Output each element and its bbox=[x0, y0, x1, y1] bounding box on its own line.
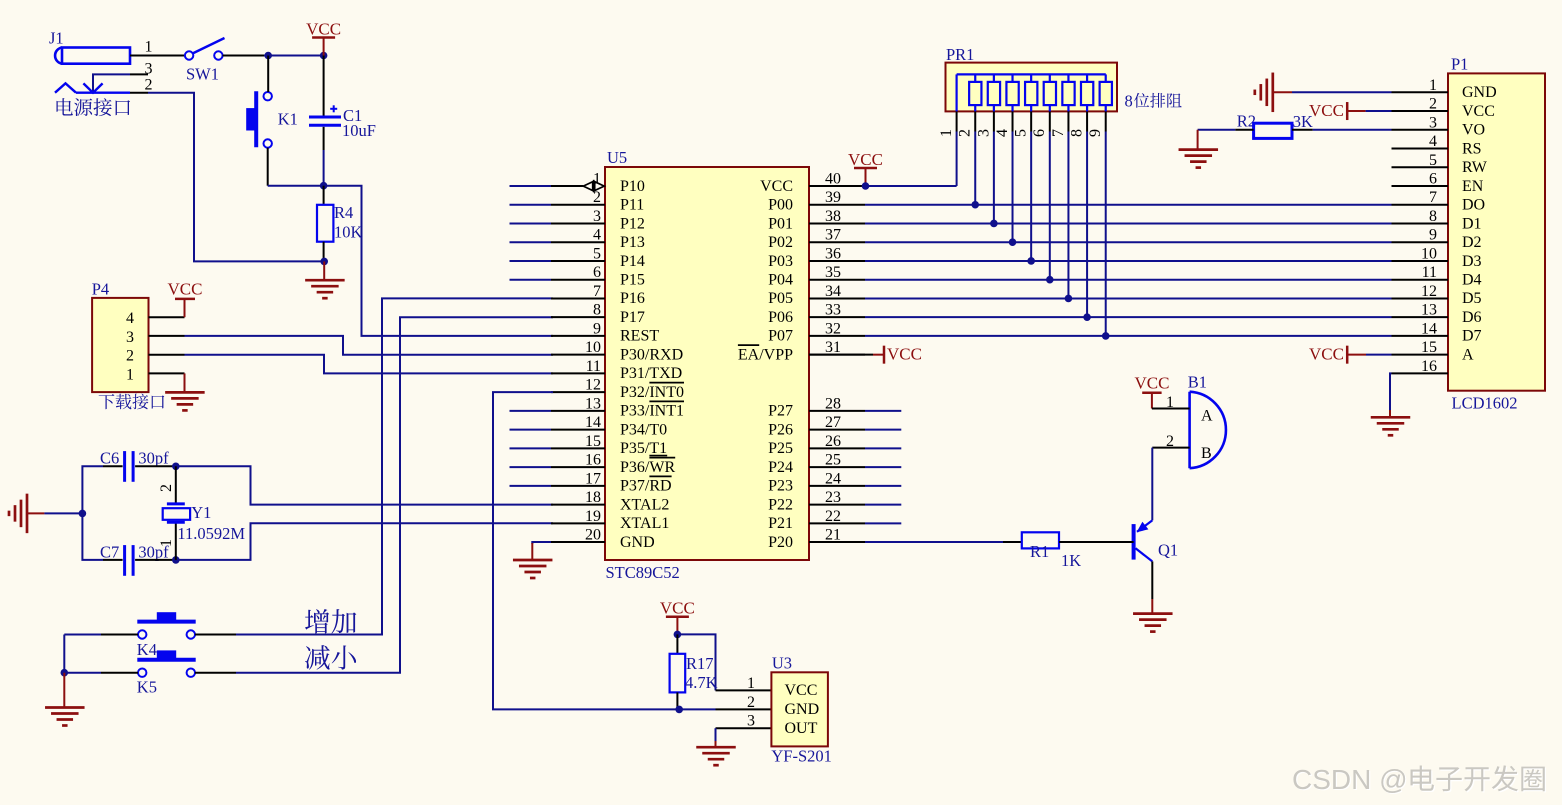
svg-text:D4: D4 bbox=[1462, 272, 1482, 289]
svg-text:P23: P23 bbox=[768, 478, 793, 495]
svg-text:VCC: VCC bbox=[660, 599, 695, 618]
wire C6 to Y1 node bbox=[135, 465, 176, 467]
U5 pin 37 P02 bbox=[809, 241, 865, 243]
wire stub U5 pin 16 bbox=[510, 466, 552, 468]
svg-text:P00: P00 bbox=[768, 197, 793, 214]
svg-text:31: 31 bbox=[825, 339, 841, 356]
svg-text:1: 1 bbox=[747, 675, 755, 692]
svg-text:3: 3 bbox=[975, 129, 992, 137]
svg-text:1: 1 bbox=[938, 129, 955, 137]
capacitor C7 30pf bbox=[123, 545, 126, 576]
PR1 pin 4 bbox=[1012, 111, 1014, 131]
svg-text:14: 14 bbox=[585, 414, 601, 431]
svg-text:Y1: Y1 bbox=[191, 503, 211, 522]
svg-text:P26: P26 bbox=[768, 421, 793, 438]
node P04 bbox=[1046, 276, 1054, 284]
resistor R17 4.7K bbox=[676, 634, 678, 653]
svg-text:37: 37 bbox=[825, 227, 841, 244]
U5 pin 39 P00 bbox=[809, 204, 865, 206]
svg-text:8: 8 bbox=[1429, 208, 1437, 225]
PR1 resistor element 3 bbox=[1011, 74, 1013, 82]
U5 pin 18 XTAL2 bbox=[551, 504, 605, 506]
svg-text:OUT: OUT bbox=[785, 720, 818, 737]
svg-text:5: 5 bbox=[1013, 129, 1030, 137]
wire K4 right to P16 net 增加 bbox=[195, 634, 236, 636]
ground at U5 GND pin 20 bbox=[532, 542, 551, 544]
power interface label 电源接口 bbox=[57, 98, 73, 115]
PR1 resistor element 6 bbox=[1067, 74, 1069, 82]
node R4/J1 ground bbox=[320, 258, 328, 266]
VCC symbol at EA/VPP pin 31 bbox=[809, 354, 873, 356]
svg-text:10: 10 bbox=[585, 339, 601, 356]
ground at U3 OUT bbox=[696, 746, 736, 749]
svg-text:P34/T0: P34/T0 bbox=[620, 421, 667, 438]
svg-text:P21: P21 bbox=[768, 515, 793, 532]
svg-text:15: 15 bbox=[1421, 339, 1437, 356]
wire PR1 pin 3 to P01 row bbox=[993, 132, 995, 224]
push button K1 bbox=[254, 91, 258, 147]
svg-text:28: 28 bbox=[825, 395, 841, 412]
wire PR1 pin 8 to P06 row bbox=[1086, 132, 1088, 318]
ground below R4 bbox=[323, 261, 325, 280]
VCC symbol top left bbox=[312, 36, 335, 39]
U5 pin 12 P32/INT0 bbox=[551, 391, 605, 393]
PR1 pin 9 bbox=[1105, 111, 1107, 131]
svg-text:VCC: VCC bbox=[848, 150, 883, 169]
svg-text:3: 3 bbox=[1429, 114, 1437, 131]
J1 pin 3 wire to sleeve bbox=[93, 74, 130, 92]
U5 pin 6 P15 bbox=[551, 279, 605, 281]
U5 pin 24 P23 bbox=[809, 485, 865, 487]
svg-text:P13: P13 bbox=[620, 234, 645, 251]
svg-text:1K: 1K bbox=[1061, 551, 1081, 570]
U5 pin 40 VCC bbox=[809, 185, 865, 187]
svg-text:1: 1 bbox=[158, 539, 175, 547]
svg-text:1: 1 bbox=[145, 39, 153, 56]
wire P06 to LCD D6 bbox=[865, 316, 1392, 318]
svg-text:SW1: SW1 bbox=[186, 65, 219, 84]
wire K1 bottom to node bbox=[267, 148, 269, 186]
svg-text:18: 18 bbox=[585, 489, 601, 506]
wire P4 pin2 to U5 TXD bbox=[185, 355, 554, 374]
node R17/U3 pin2 bbox=[675, 706, 683, 714]
node P01 bbox=[990, 220, 998, 228]
svg-text:32: 32 bbox=[825, 320, 841, 337]
wire stub U5 right row 19 bbox=[865, 522, 901, 524]
wire PR1 pin 6 to P04 row bbox=[1049, 132, 1051, 280]
P1 pin 4 bbox=[1392, 148, 1449, 150]
svg-text:K4: K4 bbox=[137, 640, 157, 659]
svg-text:8: 8 bbox=[1068, 129, 1085, 137]
svg-text:11: 11 bbox=[586, 358, 601, 375]
wire node to C6 bbox=[82, 466, 103, 513]
node C6/C7 ground bbox=[79, 510, 87, 518]
svg-text:35: 35 bbox=[825, 264, 841, 281]
wire R4 bottom to node bbox=[323, 242, 325, 262]
P1 pin 8 bbox=[1392, 222, 1449, 224]
U5 pin 34 P05 bbox=[809, 297, 865, 299]
svg-text:11.0592M: 11.0592M bbox=[177, 524, 245, 543]
svg-text:P30/RXD: P30/RXD bbox=[620, 346, 683, 363]
wire R1 to Q1 base bbox=[1059, 541, 1134, 543]
ground below Q1 bbox=[1133, 612, 1173, 615]
wire node to C7 bbox=[82, 513, 103, 560]
svg-text:3: 3 bbox=[747, 713, 755, 730]
svg-text:P04: P04 bbox=[768, 272, 793, 289]
svg-text:6: 6 bbox=[593, 264, 601, 281]
push button K4 bbox=[137, 620, 195, 624]
svg-text:P10: P10 bbox=[620, 178, 645, 195]
svg-text:27: 27 bbox=[825, 414, 841, 431]
U5 pin 4 P13 bbox=[551, 241, 605, 243]
ground below K4/K5 bbox=[63, 673, 65, 708]
svg-text:P12: P12 bbox=[620, 215, 645, 232]
wire node to XTAL2 bbox=[176, 466, 553, 504]
svg-text:R4: R4 bbox=[334, 203, 353, 222]
svg-text:P01: P01 bbox=[768, 215, 793, 232]
svg-text:XTAL2: XTAL2 bbox=[620, 496, 669, 513]
U5 pin 33 P06 bbox=[809, 316, 865, 318]
wire P02 to LCD D2 bbox=[865, 241, 1392, 243]
svg-text:P24: P24 bbox=[768, 459, 793, 476]
svg-text:2: 2 bbox=[126, 348, 134, 365]
svg-text:30pf: 30pf bbox=[138, 449, 169, 468]
PR1 resistor element 4 bbox=[1030, 74, 1032, 82]
U5 pin 9 REST bbox=[551, 335, 605, 337]
node K4/K5 ground bbox=[61, 669, 69, 677]
svg-text:XTAL1: XTAL1 bbox=[620, 515, 669, 532]
overline INT1 bbox=[649, 400, 684, 402]
overline EA bbox=[738, 344, 759, 346]
wire PR1 pin 9 to P07 row bbox=[1105, 132, 1107, 336]
node C1/R4/REST bbox=[320, 182, 328, 190]
svg-text:6: 6 bbox=[1031, 129, 1048, 137]
PR1 resistor element 8 bbox=[1105, 74, 1107, 82]
U5 pin 15 P35/T1 bbox=[551, 447, 605, 449]
underline T1 bbox=[649, 455, 667, 457]
VCC above R17 bbox=[666, 615, 689, 618]
PR1 pin 6 bbox=[1049, 111, 1051, 131]
svg-text:VCC: VCC bbox=[887, 345, 922, 364]
svg-text:13: 13 bbox=[585, 395, 601, 412]
svg-text:C7: C7 bbox=[100, 543, 119, 562]
svg-text:1: 1 bbox=[1429, 77, 1437, 94]
svg-text:EN: EN bbox=[1462, 178, 1484, 195]
wire stub U5 right row 15 bbox=[865, 447, 901, 449]
net label 减小 bbox=[305, 645, 330, 670]
svg-text:R17: R17 bbox=[686, 654, 714, 673]
wire PR1 pin 7 to P05 row bbox=[1067, 132, 1069, 299]
svg-text:P11: P11 bbox=[620, 197, 644, 214]
node P07 bbox=[1102, 332, 1110, 340]
wire P04 to LCD D4 bbox=[865, 279, 1392, 281]
crystal Y1 11.0592M bbox=[175, 466, 177, 504]
PR1 pin 8 bbox=[1086, 111, 1088, 131]
svg-text:RS: RS bbox=[1462, 140, 1482, 157]
svg-text:P37/RD: P37/RD bbox=[620, 478, 672, 495]
svg-text:REST: REST bbox=[620, 328, 659, 345]
ground below R2 bbox=[1179, 148, 1219, 151]
wire R2 right to P1 VO bbox=[1292, 129, 1313, 131]
svg-text:3K: 3K bbox=[1293, 112, 1313, 131]
svg-text:10: 10 bbox=[1421, 245, 1437, 262]
svg-text:D6: D6 bbox=[1462, 309, 1482, 326]
svg-text:Q1: Q1 bbox=[1158, 541, 1178, 560]
U5 pin 8 P17 bbox=[551, 316, 605, 318]
svg-text:4: 4 bbox=[593, 227, 601, 244]
svg-text:39: 39 bbox=[825, 189, 841, 206]
PR1 pin 7 bbox=[1067, 111, 1069, 131]
svg-text:VCC: VCC bbox=[760, 178, 793, 195]
svg-text:P22: P22 bbox=[768, 496, 793, 513]
svg-text:7: 7 bbox=[1050, 129, 1067, 137]
svg-text:34: 34 bbox=[825, 283, 841, 300]
capacitor C6 30pf bbox=[123, 451, 126, 482]
svg-text:40: 40 bbox=[825, 171, 841, 188]
U5 pin 27 P26 bbox=[809, 429, 865, 431]
svg-text:J1: J1 bbox=[49, 29, 64, 48]
wire P00 to LCD D0 bbox=[865, 204, 1392, 206]
U5 pin 19 XTAL1 bbox=[551, 522, 605, 524]
resistor R4 10K bbox=[323, 186, 325, 205]
U5 pin 21 P20 bbox=[809, 541, 865, 543]
svg-text:VCC: VCC bbox=[785, 682, 818, 699]
svg-text:GND: GND bbox=[620, 534, 655, 551]
svg-text:D7: D7 bbox=[1462, 328, 1482, 345]
U5 pin 35 P04 bbox=[809, 279, 865, 281]
svg-text:B: B bbox=[1201, 445, 1212, 462]
svg-text:21: 21 bbox=[825, 527, 841, 544]
wire stub U5 pin 15 bbox=[510, 447, 552, 449]
svg-text:26: 26 bbox=[825, 433, 841, 450]
wire B1 pin2 to Q1 collector bbox=[1151, 448, 1153, 521]
svg-text:K5: K5 bbox=[137, 678, 157, 697]
PR1 resistor element 2 bbox=[993, 74, 995, 82]
svg-text:CSDN @: CSDN @ bbox=[1292, 764, 1408, 795]
capacitor C1 10uF bbox=[323, 56, 325, 116]
wire K5 right to P17 net 减小 bbox=[195, 672, 236, 674]
svg-text:LCD1602: LCD1602 bbox=[1452, 394, 1518, 413]
U5 pin 38 P01 bbox=[809, 222, 865, 224]
svg-text:5: 5 bbox=[1429, 152, 1437, 169]
U5 pin 1 P10 bbox=[551, 185, 583, 187]
PR1 pin 5 bbox=[1030, 111, 1032, 131]
wire stub U5 pin 5 bbox=[510, 260, 552, 262]
node C6/Y1/XTAL2 bbox=[172, 463, 180, 471]
wire P4 pin3 to U5 RXD bbox=[185, 336, 554, 355]
wire stub U5 right row 14 bbox=[865, 429, 901, 431]
svg-text:D3: D3 bbox=[1462, 253, 1482, 270]
U5 pin 1 edge marker bbox=[583, 182, 604, 191]
ground at P1 pin 16 bbox=[1390, 373, 1392, 410]
svg-text:7: 7 bbox=[1429, 189, 1437, 206]
svg-text:VCC: VCC bbox=[1309, 101, 1344, 120]
svg-text:K1: K1 bbox=[278, 110, 298, 129]
wire stub U5 right row 17 bbox=[865, 485, 901, 487]
wire stub U5 pin 6 bbox=[510, 279, 552, 281]
J1 pin 3 pin bbox=[130, 73, 148, 75]
J1 pin 1 wire bbox=[130, 55, 186, 57]
P1 pin 2 bbox=[1392, 110, 1449, 112]
overline INT0 bbox=[649, 382, 684, 384]
svg-text:D1: D1 bbox=[1462, 215, 1482, 232]
svg-text:3: 3 bbox=[593, 208, 601, 225]
svg-text:2: 2 bbox=[1429, 96, 1437, 113]
svg-text:P06: P06 bbox=[768, 309, 793, 326]
P1 pin 16 bbox=[1392, 372, 1449, 374]
svg-text:10K: 10K bbox=[334, 223, 363, 242]
node P00 bbox=[971, 201, 979, 209]
wire R2 left to ground bbox=[1235, 129, 1253, 131]
node VCC pin40 bbox=[862, 182, 870, 190]
U5 pin 23 P22 bbox=[809, 504, 865, 506]
U5 pin 31 EA/VPP bbox=[809, 354, 865, 356]
svg-text:23: 23 bbox=[825, 489, 841, 506]
P1 pin 11 bbox=[1392, 279, 1449, 281]
svg-text:P14: P14 bbox=[620, 253, 645, 270]
VCC symbol at U5 pin 40 bbox=[854, 167, 877, 170]
wire stub U5 right row 13 bbox=[865, 410, 901, 412]
ground at P1 pin 1 bbox=[1271, 73, 1274, 113]
svg-text:A: A bbox=[1201, 408, 1213, 425]
wire K4 left to ground branch bbox=[101, 634, 138, 636]
U5 pin 26 P25 bbox=[809, 447, 865, 449]
node P03 bbox=[1027, 257, 1035, 265]
svg-text:16: 16 bbox=[585, 452, 601, 469]
svg-text:8: 8 bbox=[1125, 92, 1133, 111]
download interface label 下载接口 bbox=[99, 394, 115, 409]
svg-text:20: 20 bbox=[585, 527, 601, 544]
svg-text:P16: P16 bbox=[620, 290, 645, 307]
svg-text:PR1: PR1 bbox=[946, 45, 974, 64]
wire node to U3 pin2 bbox=[679, 708, 715, 710]
U5 pin 28 P27 bbox=[809, 410, 865, 412]
svg-text:P32/INT0: P32/INT0 bbox=[620, 384, 684, 401]
P1 pin 13 bbox=[1392, 316, 1449, 318]
resistor R1 1K bbox=[1022, 532, 1059, 548]
svg-text:U5: U5 bbox=[607, 148, 627, 167]
P1 pin 10 bbox=[1392, 260, 1449, 262]
svg-text:P03: P03 bbox=[768, 253, 793, 270]
wire Q1 emitter to ground bbox=[1151, 561, 1153, 599]
wire stub U5 pin 3 bbox=[510, 222, 552, 224]
svg-text:9: 9 bbox=[1429, 227, 1437, 244]
ground left of crystal bbox=[26, 494, 29, 534]
svg-text:P15: P15 bbox=[620, 272, 645, 289]
svg-text:3: 3 bbox=[126, 329, 134, 346]
P1 pin 7 bbox=[1392, 204, 1449, 206]
svg-text:14: 14 bbox=[1421, 320, 1437, 337]
wire P05 to LCD D5 bbox=[865, 297, 1392, 299]
svg-text:4: 4 bbox=[126, 310, 134, 327]
wire stub U5 pin 1 bbox=[510, 185, 552, 187]
svg-text:11: 11 bbox=[1422, 264, 1437, 281]
svg-text:15: 15 bbox=[585, 433, 601, 450]
PR1 pin 3 bbox=[993, 111, 995, 131]
U5 pin 7 P16 bbox=[551, 297, 605, 299]
svg-text:4.7K: 4.7K bbox=[685, 673, 718, 692]
svg-text:RW: RW bbox=[1462, 159, 1488, 176]
svg-text:A: A bbox=[1462, 346, 1474, 363]
svg-text:YF-S201: YF-S201 bbox=[771, 747, 832, 766]
P1 pin 3 bbox=[1392, 129, 1449, 131]
wire stub U5 right row 16 bbox=[865, 466, 901, 468]
svg-text:P07: P07 bbox=[768, 328, 793, 345]
wire R17 bottom to node bbox=[676, 692, 678, 709]
svg-text:EA/VPP: EA/VPP bbox=[738, 346, 793, 363]
PR1 bus wire bbox=[957, 73, 1106, 75]
svg-text:17: 17 bbox=[585, 470, 601, 487]
svg-text:38: 38 bbox=[825, 208, 841, 225]
P1 pin 15 bbox=[1392, 354, 1449, 356]
wire stub U5 pin 2 bbox=[510, 204, 552, 206]
PR1 resistor element 7 bbox=[1086, 74, 1088, 82]
U5 pin 36 P03 bbox=[809, 260, 865, 262]
U5 pin 10 P30/RXD bbox=[551, 354, 605, 356]
wire stub U5 pin 14 bbox=[510, 429, 552, 431]
svg-text:10uF: 10uF bbox=[342, 121, 376, 140]
U5 pin 13 P33/INT1 bbox=[551, 410, 605, 412]
PR1 resistor element 5 bbox=[1049, 74, 1051, 82]
node P02 bbox=[1009, 238, 1017, 246]
transistor Q1 bbox=[1132, 524, 1136, 560]
wire stub U5 pin 13 bbox=[510, 410, 552, 412]
svg-text:24: 24 bbox=[825, 470, 841, 487]
wire C7 to Y1 node bbox=[135, 559, 176, 561]
wire P32/INT0 to U3 bbox=[493, 392, 679, 709]
wire P07 to LCD D7 bbox=[865, 335, 1392, 337]
svg-text:D5: D5 bbox=[1462, 290, 1482, 307]
wire J1 pin2 to ground node bbox=[148, 93, 324, 262]
wire ground to C6/C7 node bbox=[27, 512, 44, 514]
node P05 bbox=[1065, 295, 1073, 303]
svg-text:2: 2 bbox=[957, 129, 974, 137]
wire stub U5 right row 18 bbox=[865, 504, 901, 506]
wire U3 pin3 to ground bbox=[716, 727, 772, 729]
ground at P4 pin 1 bbox=[184, 373, 186, 392]
svg-text:C6: C6 bbox=[100, 449, 119, 468]
svg-text:GND: GND bbox=[1462, 84, 1497, 101]
PR1 pin 1 wire bbox=[955, 74, 957, 111]
svg-text:VCC: VCC bbox=[306, 19, 341, 38]
U5 pin 22 P21 bbox=[809, 522, 865, 524]
svg-text:2: 2 bbox=[145, 77, 153, 94]
J1 sleeve symbol bbox=[55, 83, 76, 92]
U5 pin 16 P36/WR bbox=[551, 466, 605, 468]
svg-text:6: 6 bbox=[1429, 171, 1437, 188]
wire P20 to R1 bbox=[865, 541, 1003, 543]
svg-text:8: 8 bbox=[593, 302, 601, 319]
switch SW1 bbox=[185, 51, 193, 59]
wire node to K1 top bbox=[267, 56, 269, 93]
svg-text:VCC: VCC bbox=[1309, 345, 1344, 364]
wire PR1 pin 5 to P03 row bbox=[1030, 132, 1032, 261]
P1 pin 5 bbox=[1392, 166, 1449, 168]
wire node to U3 pin1 bbox=[677, 634, 715, 690]
svg-text:4: 4 bbox=[1429, 133, 1437, 150]
U5 pin 11 P31/TXD bbox=[551, 372, 605, 374]
node C7/Y1/XTAL1 bbox=[172, 556, 180, 564]
svg-text:19: 19 bbox=[585, 508, 601, 525]
svg-text:B1: B1 bbox=[1188, 373, 1207, 392]
svg-text:4: 4 bbox=[994, 129, 1011, 137]
wire P03 to LCD D3 bbox=[865, 260, 1392, 262]
U5 pin 2 P11 bbox=[551, 204, 605, 206]
P1 pin 6 bbox=[1392, 185, 1449, 187]
svg-text:13: 13 bbox=[1421, 302, 1437, 319]
svg-text:1: 1 bbox=[126, 366, 134, 383]
svg-text:P31/TXD: P31/TXD bbox=[620, 365, 682, 382]
